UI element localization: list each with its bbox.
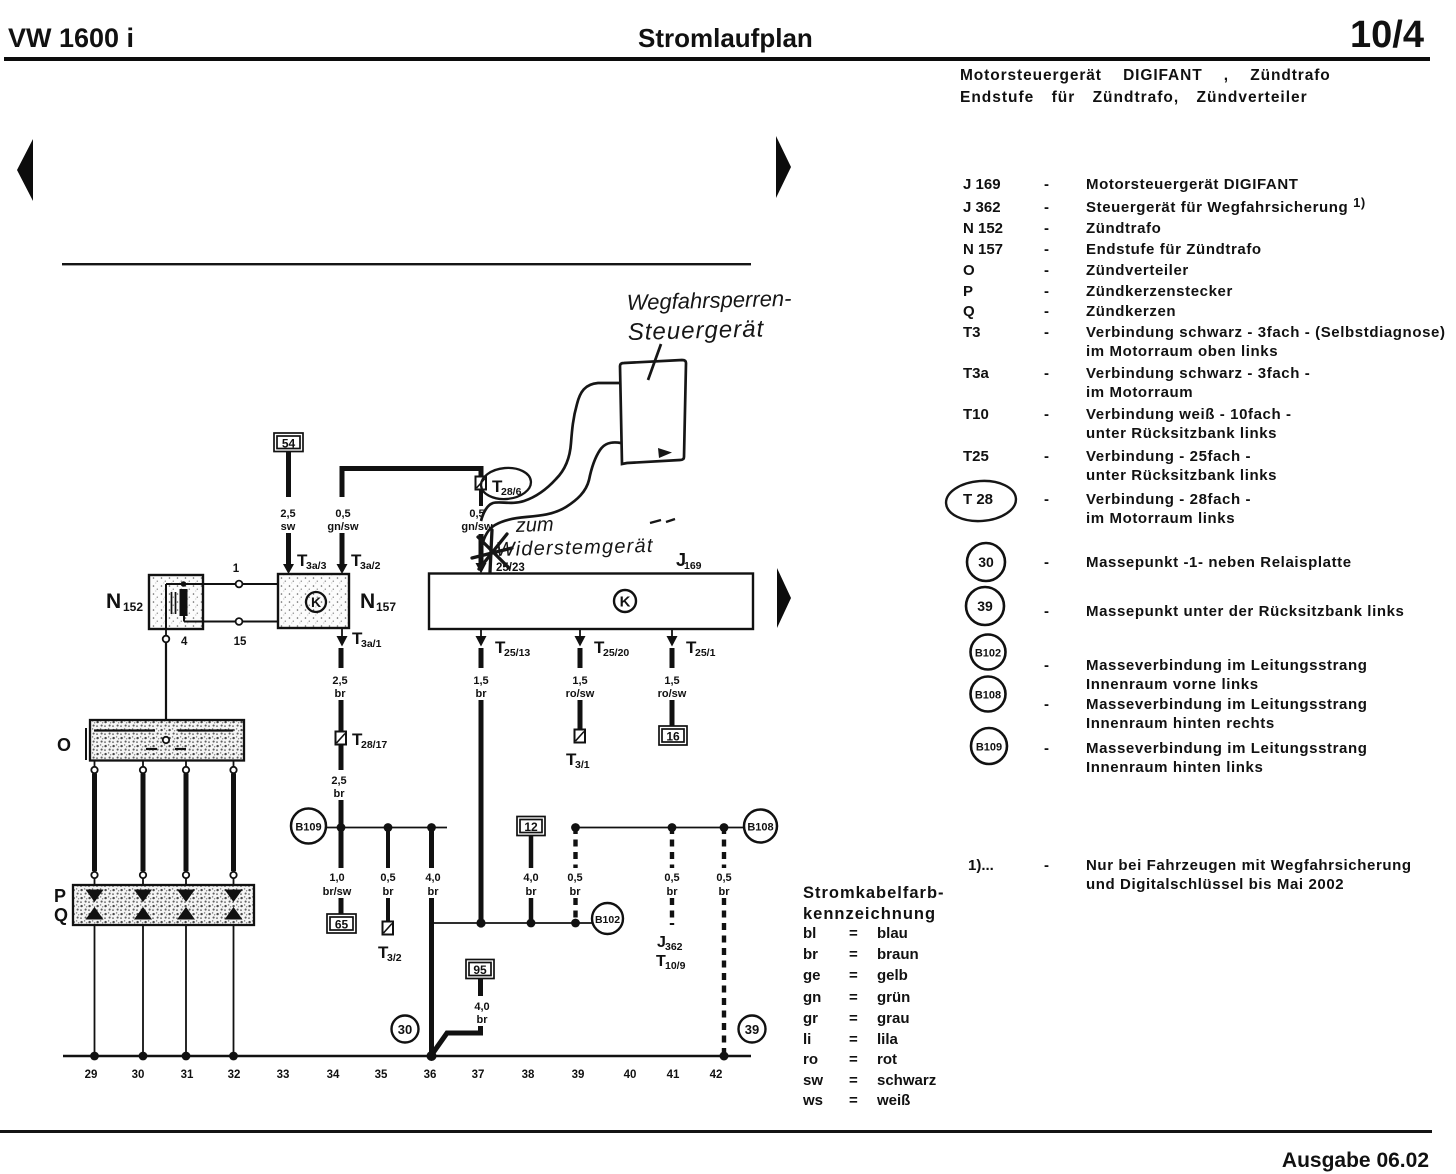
svg-text:-: - [1044, 283, 1049, 300]
svg-text:br: br [570, 886, 582, 898]
svg-text:br/sw: br/sw [323, 886, 352, 898]
wire 4,0 br from terminal 12 [529, 836, 534, 869]
svg-text:3/1: 3/1 [575, 759, 590, 771]
connector T28/17 symbol [336, 732, 347, 745]
svg-text:-: - [1044, 365, 1049, 382]
svg-text:28/17: 28/17 [361, 739, 387, 751]
svg-text:38: 38 [522, 1069, 535, 1081]
svg-text:T25: T25 [963, 448, 989, 465]
wire N152 pin 4 down to distributor [165, 629, 167, 636]
svg-text:3/2: 3/2 [387, 952, 402, 964]
svg-text:1,5: 1,5 [572, 675, 587, 687]
svg-text:1,0: 1,0 [329, 872, 344, 884]
svg-text:-: - [1044, 220, 1049, 237]
track numbers [85, 1069, 723, 1081]
svg-text:J 362: J 362 [963, 199, 1001, 216]
svg-text:O: O [963, 262, 975, 279]
ground connection B102 legend [971, 635, 1006, 670]
svg-text:Q: Q [963, 303, 975, 320]
ground point 39 circle [739, 1016, 766, 1043]
svg-text:zum: zum [514, 514, 554, 537]
svg-text:B102: B102 [975, 648, 1001, 660]
svg-text:=: = [849, 967, 858, 984]
svg-text:Verbindung schwarz - 3fach - (: Verbindung schwarz - 3fach - (Selbstdiag… [1086, 324, 1446, 341]
ground rail right [576, 827, 746, 829]
svg-text:Zündtrafo: Zündtrafo [1086, 220, 1161, 237]
dashed wire 0,5 br to earth bus right [722, 827, 726, 868]
svg-text:T3a: T3a [963, 365, 990, 382]
junction dots left rail [337, 823, 346, 832]
svg-text:-: - [1044, 554, 1049, 571]
control unit J169 [429, 574, 753, 630]
svg-text:362: 362 [665, 941, 683, 953]
svg-text:95: 95 [473, 963, 487, 977]
svg-text:im Motorraum oben links: im Motorraum oben links [1086, 343, 1278, 360]
terminal 16 box [659, 726, 687, 745]
svg-text:54: 54 [282, 437, 296, 451]
svg-text:VW 1600 i: VW 1600 i [8, 23, 134, 53]
svg-text:34: 34 [327, 1069, 340, 1081]
hand-drawn control unit box [620, 360, 686, 464]
wire 1,0 br/sw to terminal 65 [339, 827, 344, 868]
wire 4,0 br from terminal 95 to earth bus [478, 979, 483, 997]
svg-text:4,0: 4,0 [425, 872, 440, 884]
svg-text:B102: B102 [595, 914, 620, 926]
svg-text:39: 39 [977, 598, 993, 614]
svg-text:im Motorraum links: im Motorraum links [1086, 510, 1235, 527]
wire 4,0 br to earth bus [429, 827, 434, 868]
svg-text:P: P [963, 283, 973, 300]
connector T28/6 symbol [476, 477, 487, 490]
wire N152 pin 1 to N157 [166, 583, 236, 585]
pin T25/13 below J169 [480, 629, 482, 637]
hand-drawn arrowhead inside box [658, 448, 672, 458]
terminal 54 box [274, 433, 303, 452]
svg-text:42: 42 [710, 1069, 723, 1081]
svg-text:T3: T3 [963, 324, 981, 341]
svg-text:39: 39 [572, 1069, 585, 1081]
wire 0,5 gn/sw down to J169 [479, 490, 483, 507]
svg-text:0,5: 0,5 [567, 872, 582, 884]
svg-text:-: - [1044, 406, 1049, 423]
wire 2,5 br below T28/17 [339, 745, 344, 771]
svg-text:br: br [667, 886, 679, 898]
svg-text:N: N [106, 590, 121, 613]
hand-drawn X cross-out [472, 530, 512, 572]
svg-text:sw: sw [803, 1072, 823, 1089]
svg-text:-: - [1044, 696, 1049, 713]
svg-text:T10: T10 [963, 406, 989, 423]
svg-text:ro/sw: ro/sw [658, 688, 687, 700]
dashed wire 0,5 br to J362 T10/9 [670, 827, 674, 868]
svg-text:br: br [803, 946, 818, 963]
svg-text:Nur bei Fahrzeugen mit Wegfahr: Nur bei Fahrzeugen mit Wegfahrsicherung [1086, 857, 1412, 874]
svg-text:Verbindung - 28fach -: Verbindung - 28fach - [1086, 491, 1251, 508]
pin arrow T25/23 [476, 563, 487, 574]
svg-text:33: 33 [277, 1069, 290, 1081]
page arrow right mid [777, 568, 791, 628]
page arrow right top [776, 136, 791, 198]
svg-text:Stromlaufplan: Stromlaufplan [638, 23, 813, 53]
svg-text:Verbindung schwarz - 3fach -: Verbindung schwarz - 3fach - [1086, 365, 1310, 382]
svg-text:li: li [803, 1031, 811, 1048]
svg-text:gr: gr [803, 1010, 818, 1027]
svg-text:br: br [477, 1014, 489, 1026]
svg-text:=: = [849, 1010, 858, 1027]
earth leads below Q [95, 925, 234, 1056]
svg-text:gn/sw: gn/sw [327, 521, 359, 533]
svg-text:2,5: 2,5 [331, 775, 346, 787]
svg-text:unter Rücksitzbank links: unter Rücksitzbank links [1086, 467, 1277, 484]
svg-text:10/9: 10/9 [665, 960, 686, 972]
ground point 30 legend [967, 543, 1005, 581]
svg-text:schwarz: schwarz [877, 1072, 936, 1089]
pin arrow T3a/2 [337, 564, 348, 574]
hand-drawn arrow into box [648, 344, 661, 380]
svg-text:0,5: 0,5 [335, 508, 350, 520]
svg-text:1,5: 1,5 [473, 675, 488, 687]
svg-text:Massepunkt unter der Rücksitzb: Massepunkt unter der Rücksitzbank links [1086, 603, 1404, 620]
svg-text:-: - [1044, 324, 1049, 341]
svg-text:3a/2: 3a/2 [360, 560, 381, 572]
svg-text:37: 37 [472, 1069, 485, 1081]
svg-text:J 169: J 169 [963, 176, 1001, 193]
svg-text:ro/sw: ro/sw [566, 688, 595, 700]
svg-text:65: 65 [335, 918, 349, 932]
svg-text:157: 157 [376, 600, 396, 614]
output stage N157 [278, 574, 349, 628]
svg-text:Steuergerät für Wegfahrsicheru: Steuergerät für Wegfahrsicherung 1) [1086, 195, 1366, 216]
svg-text:10/4: 10/4 [1350, 14, 1424, 56]
svg-text:B108: B108 [975, 690, 1001, 702]
svg-text:41: 41 [667, 1069, 680, 1081]
svg-text:4: 4 [181, 636, 188, 648]
spark plug connectors P and plugs Q box [73, 885, 254, 925]
svg-text:Endstufe für Zündtrafo: Endstufe für Zündtrafo [1086, 241, 1262, 258]
hand-drawn wire upper to box [481, 383, 620, 521]
svg-text:Wegfahrsperren-: Wegfahrsperren- [626, 286, 791, 315]
svg-text:blau: blau [877, 925, 908, 942]
svg-text:K: K [311, 594, 321, 610]
svg-text:und Digitalschlüssel bis Mai 2: und Digitalschlüssel bis Mai 2002 [1086, 876, 1344, 893]
svg-text:gelb: gelb [877, 967, 908, 984]
svg-text:=: = [849, 1031, 858, 1048]
svg-text:Innenraum hinten rechts: Innenraum hinten rechts [1086, 715, 1275, 732]
svg-text:T 28: T 28 [963, 491, 993, 508]
dashed wire 0,5 br B102 branch [573, 827, 577, 868]
svg-text:N: N [360, 590, 375, 613]
hand-drawn wire lower to box [482, 442, 621, 546]
ignition transformer N152 [149, 575, 203, 629]
svg-text:ro: ro [803, 1051, 818, 1068]
page arrow left [17, 139, 33, 201]
svg-text:3a/3: 3a/3 [306, 560, 327, 572]
svg-text:br: br [719, 886, 731, 898]
svg-text:1,5: 1,5 [664, 675, 679, 687]
svg-text:br: br [526, 886, 538, 898]
svg-text:Innenraum hinten links: Innenraum hinten links [1086, 759, 1263, 776]
svg-text:30: 30 [398, 1022, 412, 1037]
svg-text:br: br [428, 886, 440, 898]
svg-text:kennzeichnung: kennzeichnung [803, 905, 936, 923]
svg-text:P: P [54, 886, 66, 906]
svg-text:32: 32 [228, 1069, 241, 1081]
ground point 30 circle [392, 1016, 419, 1043]
svg-text:rot: rot [877, 1051, 897, 1068]
svg-text:Verbindung weiß - 10fach -: Verbindung weiß - 10fach - [1086, 406, 1292, 423]
svg-text:Zündkerzen: Zündkerzen [1086, 303, 1176, 320]
svg-text:ge: ge [803, 967, 821, 984]
ground connection B108 legend [971, 677, 1006, 712]
svg-text:br: br [476, 688, 488, 700]
svg-text:25/1: 25/1 [695, 647, 716, 659]
svg-text:Zündkerzenstecker: Zündkerzenstecker [1086, 283, 1233, 300]
pin arrow T3a/1 below N157 [341, 628, 343, 637]
wire 0,5 gn/sw horizontal run [342, 469, 481, 498]
svg-text:bl: bl [803, 925, 816, 942]
svg-text:br: br [335, 688, 347, 700]
svg-text:B109: B109 [295, 822, 321, 834]
svg-text:3a/1: 3a/1 [361, 638, 382, 650]
svg-text:weiß: weiß [876, 1092, 910, 1109]
svg-text:36: 36 [424, 1069, 437, 1081]
terminal 95 box [466, 960, 494, 979]
svg-text:31: 31 [181, 1069, 194, 1081]
separator line [62, 263, 751, 265]
svg-text:N 157: N 157 [963, 241, 1003, 258]
earth bus [63, 1055, 751, 1058]
svg-text:-: - [1044, 657, 1049, 674]
handwritten dash marks [650, 519, 675, 523]
wire 0,5 br to T3/2 [386, 827, 390, 868]
ground point 39 legend [966, 587, 1004, 625]
ground connection B109 legend [971, 728, 1007, 764]
svg-text:grau: grau [877, 1010, 910, 1027]
svg-text:sw: sw [281, 521, 296, 533]
svg-text:Stromkabelfarb-: Stromkabelfarb- [803, 884, 945, 902]
svg-text:O: O [57, 735, 71, 755]
ignition leads O to P/Q [95, 761, 234, 767]
svg-text:16: 16 [666, 730, 680, 744]
connector T3/1 symbol [575, 730, 586, 743]
svg-text:2,5: 2,5 [280, 508, 295, 520]
svg-text:0,5: 0,5 [716, 872, 731, 884]
svg-text:29: 29 [85, 1069, 98, 1081]
pin arrow T3a/3 [283, 564, 294, 574]
svg-text:ws: ws [802, 1092, 823, 1109]
wire 1,5 br from T25/13 [479, 648, 484, 668]
svg-text:Steuergerät: Steuergerät [627, 315, 764, 346]
svg-text:30: 30 [132, 1069, 145, 1081]
ground connection B108 circle [744, 810, 777, 843]
svg-text:25/13: 25/13 [504, 647, 530, 659]
svg-text:=: = [849, 925, 858, 942]
svg-text:Masseverbindung im Leitungsstr: Masseverbindung im Leitungsstrang [1086, 740, 1368, 757]
terminal 12 box [517, 817, 545, 836]
svg-text:=: = [849, 989, 858, 1006]
svg-text:Verbindung - 25fach -: Verbindung - 25fach - [1086, 448, 1251, 465]
svg-text:1: 1 [233, 563, 240, 575]
svg-text:15: 15 [234, 636, 247, 648]
svg-text:12: 12 [524, 820, 538, 834]
ground rail left [326, 827, 447, 829]
svg-text:Masseverbindung im Leitungsstr: Masseverbindung im Leitungsstrang [1086, 657, 1368, 674]
svg-text:-: - [1044, 303, 1049, 320]
svg-text:K: K [620, 594, 631, 611]
wire 2,5 br from T3a/1 [339, 648, 344, 668]
svg-text:Zündverteiler: Zündverteiler [1086, 262, 1189, 279]
svg-text:br: br [383, 886, 395, 898]
svg-text:-: - [1044, 241, 1049, 258]
svg-text:152: 152 [123, 600, 143, 614]
terminal 65 box [327, 914, 356, 933]
svg-text:-: - [1044, 603, 1049, 620]
svg-text:Widerstemgerät: Widerstemgerät [496, 535, 655, 561]
wire 1,5 ro/sw from T25/20 [578, 648, 583, 668]
svg-text:-: - [1044, 262, 1049, 279]
svg-text:0,5: 0,5 [664, 872, 679, 884]
svg-text:B108: B108 [747, 822, 773, 834]
svg-text:25/20: 25/20 [603, 647, 629, 659]
ground connection B102 circle [592, 903, 623, 934]
footer rule [0, 1130, 1432, 1133]
svg-text:im Motorraum: im Motorraum [1086, 384, 1193, 401]
svg-text:braun: braun [877, 946, 919, 963]
svg-text:Ausgabe 06.02: Ausgabe 06.02 [1282, 1149, 1429, 1172]
svg-text:-: - [1044, 491, 1049, 508]
svg-text:35: 35 [375, 1069, 388, 1081]
svg-text:Innenraum vorne links: Innenraum vorne links [1086, 676, 1259, 693]
svg-text:=: = [849, 1072, 858, 1089]
svg-text:4,0: 4,0 [474, 1001, 489, 1013]
svg-text:Motorsteuergerät DIGIFANT: Motorsteuergerät DIGIFANT [1086, 176, 1299, 193]
ground link line to B102 [432, 922, 594, 924]
svg-text:Motorsteuergerät DIGIFANT , Zü: Motorsteuergerät DIGIFANT , Zündtrafo [960, 67, 1331, 84]
svg-text:1)...: 1)... [968, 857, 994, 874]
svg-text:=: = [849, 1092, 858, 1109]
svg-text:N 152: N 152 [963, 220, 1003, 237]
svg-text:Massepunkt -1- neben Relaispl: Massepunkt -1- neben Relaisplatte [1086, 554, 1352, 571]
svg-text:=: = [849, 1051, 858, 1068]
wire N152 pin 15 to N157 [183, 614, 185, 622]
svg-text:-: - [1044, 448, 1049, 465]
hand ellipse around T28 [945, 479, 1018, 524]
wire 2,5 sw from terminal 54 [286, 452, 291, 498]
hand ellipse around T28/6 [480, 466, 533, 501]
svg-text:-: - [1044, 740, 1049, 757]
svg-text:unter Rücksitzbank links: unter Rücksitzbank links [1086, 425, 1277, 442]
wire 1,5 ro/sw from T25/1 [670, 648, 675, 668]
svg-text:-: - [1044, 199, 1049, 216]
header rule [4, 57, 1430, 61]
svg-text:30: 30 [978, 554, 994, 570]
svg-text:Q: Q [54, 905, 68, 925]
connector T3/2 symbol [383, 922, 394, 935]
svg-text:br: br [334, 788, 346, 800]
svg-text:=: = [849, 946, 858, 963]
svg-text:grün: grün [877, 989, 910, 1006]
svg-text:-: - [1044, 176, 1049, 193]
svg-text:Masseverbindung im Leitungsstr: Masseverbindung im Leitungsstrang [1086, 696, 1368, 713]
ground connection B109 circle [291, 809, 326, 844]
svg-text:lila: lila [877, 1031, 899, 1048]
distributor O box [90, 720, 244, 761]
svg-text:2,5: 2,5 [332, 675, 347, 687]
svg-text:169: 169 [684, 560, 702, 572]
svg-text:0,5: 0,5 [380, 872, 395, 884]
svg-text:B109: B109 [976, 742, 1002, 754]
svg-text:4,0: 4,0 [523, 872, 538, 884]
svg-text:Endstufe für Zündtrafo, Zündve: Endstufe für Zündtrafo, Zündverteiler [960, 89, 1308, 106]
svg-text:39: 39 [745, 1022, 759, 1037]
svg-text:40: 40 [624, 1069, 637, 1081]
pin T25/1 below J169 [671, 629, 673, 637]
pin T25/20 below J169 [579, 629, 581, 637]
svg-text:gn: gn [803, 989, 821, 1006]
svg-text:-: - [1044, 857, 1049, 874]
